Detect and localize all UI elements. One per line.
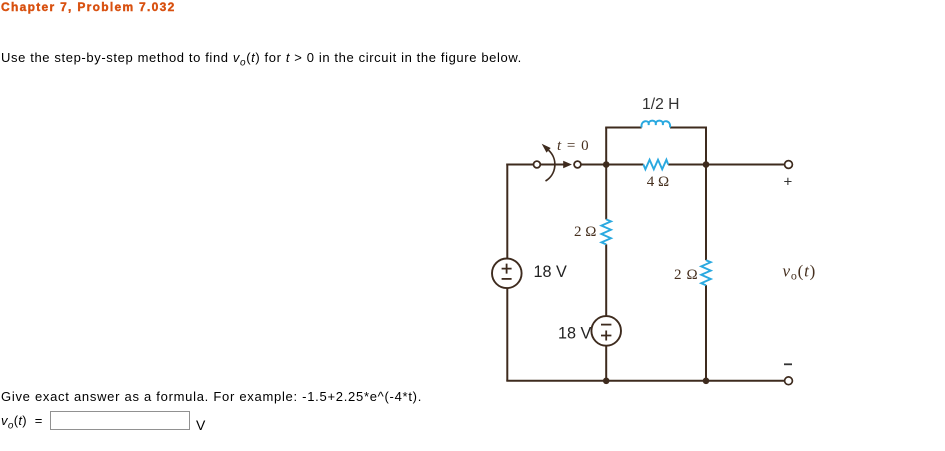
- switch SW1 open-circle terminal right: [574, 161, 581, 168]
- node A junction dot (top middle): [603, 161, 610, 168]
- voltage source V2 plus sign: [601, 331, 611, 341]
- svg-text:vo(t): vo(t): [783, 262, 817, 283]
- unit V: [196, 417, 205, 433]
- wire: inductor branch right vertical: [705, 128, 707, 165]
- switch SW1 blade arrowhead: [563, 161, 572, 168]
- wire: inductor branch top-right horizontal: [670, 127, 707, 129]
- wire: middle branch between R1 and source V2: [605, 244, 607, 316]
- voltage source V1 (18 V) circle: [492, 259, 522, 289]
- wire: top-left horizontal to switch terminal: [506, 164, 533, 166]
- junction dot bottom middle: [603, 378, 610, 385]
- title: [1, 0, 176, 14]
- resistor R3 (2 ohm, right) zigzag: [701, 260, 711, 285]
- svg-text:2 Ω: 2 Ω: [674, 267, 698, 283]
- output terminal bottom (open circle): [785, 377, 793, 385]
- svg-text:t = 0: t = 0: [557, 138, 590, 154]
- wire: switch blade segment: [540, 164, 564, 166]
- svg-text:18 V: 18 V: [558, 325, 592, 343]
- voltage source V2 minus sign: [601, 324, 611, 326]
- wire: bottom horizontal: [506, 380, 784, 382]
- resistor R1 (2 ohm, middle) zigzag: [601, 219, 611, 244]
- wire: middle branch below source V2: [605, 346, 607, 381]
- resistor R2 (4 ohm) zigzag: [643, 160, 668, 170]
- label minus polarity at output: [784, 363, 792, 365]
- switch SW1 motion arc arrowhead: [542, 144, 551, 153]
- wire: right branch lower (R3 to bottom wire): [705, 285, 707, 381]
- answer input box: [50, 411, 190, 430]
- answer instructions: [1, 389, 422, 404]
- switch SW1 open-circle terminal left: [534, 161, 541, 168]
- junction dot bottom right: [703, 378, 710, 385]
- voltage source V1 plus sign: [502, 264, 512, 274]
- wire: node B to output terminal: [668, 164, 784, 166]
- svg-text:4 Ω: 4 Ω: [647, 174, 669, 190]
- wire: switch to node A segment: [581, 164, 644, 166]
- wire: inductor branch left vertical: [605, 128, 607, 165]
- wire: left vertical upper segment: [506, 164, 508, 259]
- node B junction dot (top right): [703, 161, 710, 168]
- wire: inductor branch top-left horizontal: [605, 127, 641, 129]
- wire: right branch upper (node B to resistor R3): [705, 165, 707, 261]
- voltage source V2 (18 V) circle: [591, 316, 621, 346]
- svg-text:1/2 H: 1/2 H: [642, 96, 680, 113]
- switch SW1 motion arc: [546, 150, 555, 181]
- svg-text:18 V: 18 V: [534, 263, 568, 281]
- problem statement: [1, 50, 522, 69]
- svg-text:2 Ω: 2 Ω: [574, 224, 596, 240]
- voltage source V1 minus sign: [502, 278, 512, 280]
- inductor L1 (1/2 H) coil: [641, 121, 670, 128]
- wire: left vertical lower segment: [506, 288, 508, 381]
- answer label: [1, 413, 43, 432]
- output terminal top (open circle): [785, 161, 793, 169]
- wire: middle branch upper (node A to resistor R1): [605, 165, 607, 220]
- svg-text:+: +: [784, 174, 793, 191]
